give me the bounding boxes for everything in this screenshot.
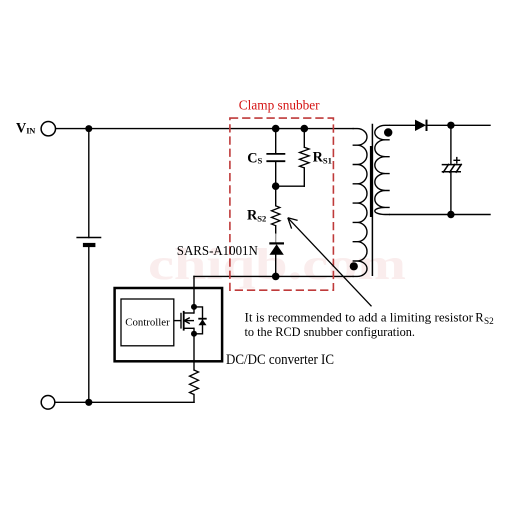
diode D2 output rectifier [415,120,427,131]
Controller box [121,299,174,346]
wire bottom-left rail [55,401,194,403]
node dot top-left junction [85,125,92,132]
transistor Q1 MOSFET [174,311,194,331]
node dot mosfet source-diode junction [191,331,197,337]
node dot output top junction [447,122,454,129]
transformer T1 secondary winding [375,125,390,214]
node dot output bottom junction [447,211,454,218]
terminal Vin circle [41,122,55,136]
diode D1 SARS-A1001N [269,243,284,254]
wire Rs1 top lead [303,129,305,148]
DC/DC converter IC box [115,288,223,361]
wire left vertical from Vin node to battery [88,129,90,238]
svg-text:SARS-A1001N: SARS-A1001N [177,243,258,258]
wire top rail [56,128,354,130]
wire mosfet source to resistor [193,328,195,370]
wire source resistor to bottom rail [193,395,195,403]
wire output diode to right end [427,124,491,126]
battery B1 [76,238,101,248]
node dot Rs1 top [301,125,309,133]
svg-text:R: R [475,311,484,325]
annotation arrow to Rs2 [288,218,372,306]
svg-text:Clamp snubber: Clamp snubber [239,98,320,113]
wire secondary top to output diode [390,124,415,126]
wire output cap bottom lead [450,172,452,214]
transformer T1 primary winding [353,129,367,277]
node dot primary phase [350,262,358,270]
resistor Rs2 [272,206,280,226]
terminal bottom-left circle [41,396,55,410]
transformer core line short [370,146,372,217]
svg-text:It is recommended to add a lim: It is recommended to add a limiting resi… [245,311,474,325]
node dot Cs top [272,125,280,133]
wire output cap top lead [450,125,452,164]
wire Rs2 to diode gray segment [275,234,277,243]
capacitor Cs [266,154,285,161]
node dot Cs-Rs1 junction [272,182,280,190]
node dot mosfet drain-diode junction [191,304,197,310]
svg-text:to the RCD snubber configurati: to the RCD snubber configuration. [245,325,416,339]
wire diode anode to bottom rail [275,255,277,277]
wire Cs bottom lead to node [275,162,277,206]
capacitor C2 output electrolytic [442,157,462,173]
node dot secondary phase [384,128,392,136]
clamp snubber dashed box [230,118,334,290]
svg-text:DC/DC converter IC: DC/DC converter IC [226,352,334,368]
wire body diode branch [194,307,203,334]
node dot snubber bottom junction [272,273,280,281]
wire battery to bottom rail [88,245,90,402]
wire secondary bottom rail [390,214,490,216]
wire Rs1 to Cs node horizontal [276,185,305,187]
wire Rs2 to diode upper segment [275,226,277,234]
svg-text:S2: S2 [484,316,494,326]
wire mosfet drain to primary bottom rail [193,276,195,313]
resistor source sense [190,370,199,395]
svg-text:Controller: Controller [125,317,170,329]
wire Rs1 bottom lead [303,168,305,186]
diode body diode of Q1 [198,319,206,326]
wire primary bottom rail [194,275,353,277]
wire Cs top lead [275,129,277,154]
resistor Rs1 [300,147,310,168]
transformer core line long [371,124,373,276]
node dot bottom-left junction [85,399,92,406]
